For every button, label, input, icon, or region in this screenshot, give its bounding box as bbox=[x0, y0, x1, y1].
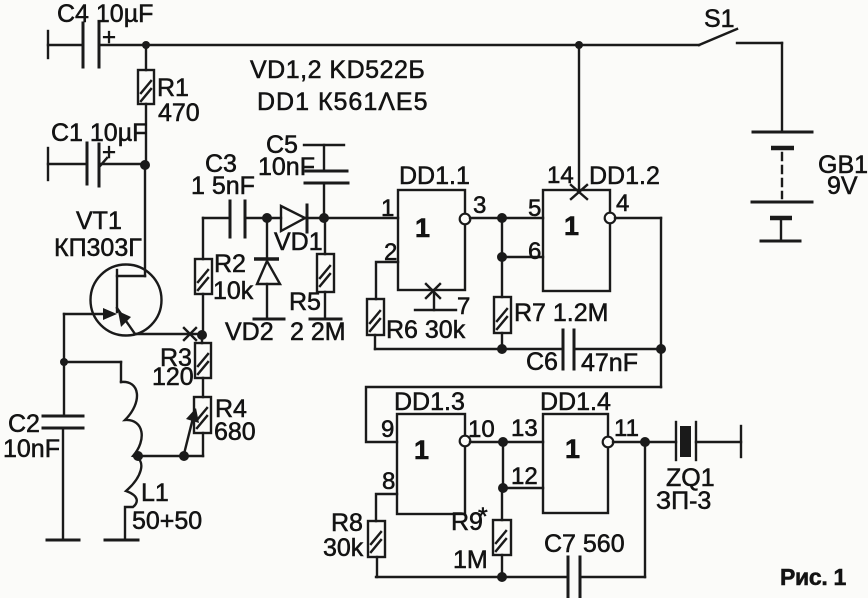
svg-text:L1: L1 bbox=[141, 479, 169, 507]
svg-text:1: 1 bbox=[414, 435, 429, 465]
resistor R5 bbox=[289, 218, 346, 346]
gate DD1.4 bbox=[540, 388, 611, 513]
svg-text:DD1.1: DD1.1 bbox=[399, 162, 470, 190]
wire feedback right bbox=[656, 218, 666, 387]
capacitor C4 bbox=[48, 0, 153, 67]
svg-text:9V: 9V bbox=[827, 172, 858, 200]
resistor R2 bbox=[195, 218, 254, 335]
svg-text:1: 1 bbox=[565, 434, 580, 464]
svg-text:1 5nF: 1 5nF bbox=[191, 172, 255, 200]
svg-text:10nF: 10nF bbox=[258, 153, 315, 181]
svg-text:13: 13 bbox=[511, 415, 538, 442]
pin 2 wire bbox=[376, 239, 398, 299]
resistor R4 (adjustable) bbox=[184, 395, 256, 456]
svg-text:47nF: 47nF bbox=[581, 349, 638, 377]
wire VT1 source to R3 node bbox=[135, 328, 207, 340]
svg-text:C7 560: C7 560 bbox=[544, 530, 625, 558]
svg-text:VD2: VD2 bbox=[225, 318, 274, 346]
svg-text:11: 11 bbox=[614, 415, 639, 442]
svg-text:R1: R1 bbox=[157, 74, 189, 102]
svg-text:120: 120 bbox=[152, 363, 194, 391]
svg-text:7: 7 bbox=[457, 293, 470, 320]
svg-text:VT1: VT1 bbox=[76, 207, 122, 235]
pin 10 output bbox=[460, 415, 543, 447]
pin 6 wire bbox=[497, 195, 543, 297]
svg-text:ЗП-3: ЗП-3 bbox=[656, 487, 711, 515]
svg-text:3: 3 bbox=[473, 192, 486, 219]
svg-text:14: 14 bbox=[547, 162, 574, 189]
svg-text:C2: C2 bbox=[8, 410, 40, 438]
svg-text:DD1 К561ΛЕ5: DD1 К561ΛЕ5 bbox=[257, 88, 429, 116]
battery GB1 bbox=[752, 132, 868, 241]
svg-text:КП303Г: КП303Г bbox=[54, 234, 142, 262]
resistor R7 bbox=[494, 297, 608, 349]
svg-text:6: 6 bbox=[528, 238, 541, 265]
svg-text:1: 1 bbox=[564, 211, 579, 241]
diode VD2 bbox=[225, 218, 284, 346]
capacitor C3 bbox=[191, 150, 281, 237]
gate DD1.2 bbox=[543, 162, 660, 291]
svg-text:DD1.3: DD1.3 bbox=[394, 388, 465, 416]
wire top supply rail bbox=[142, 41, 699, 49]
svg-text:C1 10µF: C1 10µF bbox=[51, 119, 147, 147]
svg-text:12: 12 bbox=[511, 463, 538, 490]
wire battery feed bbox=[781, 43, 783, 132]
svg-text:R5: R5 bbox=[289, 288, 321, 316]
svg-text:DD1.2: DD1.2 bbox=[589, 162, 660, 190]
svg-text:8: 8 bbox=[382, 468, 395, 495]
svg-text:R6 30k: R6 30k bbox=[386, 316, 466, 344]
switch S1 bbox=[699, 5, 782, 45]
resistor R8 bbox=[323, 509, 385, 577]
resistor R3 bbox=[152, 335, 211, 397]
svg-text:2: 2 bbox=[384, 239, 397, 266]
svg-text:C6: C6 bbox=[526, 348, 558, 376]
wire bottom rail bbox=[376, 576, 568, 578]
gate DD1.1 bbox=[398, 162, 470, 290]
svg-text:+: + bbox=[102, 24, 116, 51]
inductor L1 bbox=[105, 362, 203, 540]
capacitor C6 bbox=[497, 330, 661, 377]
resistor R1 bbox=[138, 45, 200, 165]
svg-text:R2: R2 bbox=[214, 250, 246, 278]
svg-text:1: 1 bbox=[381, 195, 394, 222]
capacitor C2 bbox=[3, 362, 83, 540]
svg-text:C4 10µF: C4 10µF bbox=[57, 0, 153, 28]
wire output down bbox=[644, 442, 646, 577]
svg-text:5: 5 bbox=[528, 195, 541, 222]
svg-text:S1: S1 bbox=[704, 5, 735, 33]
pin 4 output bbox=[605, 190, 661, 223]
gate DD1.3 bbox=[381, 388, 465, 514]
svg-text:10nF: 10nF bbox=[3, 435, 60, 463]
svg-text:2 2M: 2 2M bbox=[290, 318, 346, 346]
svg-text:DD1.4: DD1.4 bbox=[540, 388, 611, 416]
svg-text:VD1: VD1 bbox=[274, 228, 323, 256]
svg-text:1: 1 bbox=[415, 213, 430, 243]
svg-text:Рис. 1: Рис. 1 bbox=[780, 564, 847, 590]
wire R1 to VT1 drain bbox=[144, 165, 146, 276]
pin 12 wire bbox=[498, 442, 543, 493]
wire feedback to pin 9 bbox=[366, 387, 661, 442]
piezo ZQ1 bbox=[656, 422, 741, 515]
pin 3 output bbox=[460, 192, 543, 224]
svg-text:9: 9 bbox=[381, 416, 394, 443]
wire timing rail bbox=[375, 348, 563, 350]
pin 7 ground stub bbox=[415, 284, 470, 320]
capacitor C1 bbox=[48, 119, 150, 186]
svg-text:R8: R8 bbox=[331, 509, 363, 537]
svg-text:50+50: 50+50 bbox=[132, 507, 202, 535]
pin 11 output bbox=[603, 415, 676, 447]
svg-text:R7 1.2M: R7 1.2M bbox=[514, 299, 608, 327]
pin 14 power bbox=[547, 45, 587, 199]
svg-text:30k: 30k bbox=[323, 534, 364, 562]
svg-text:10k: 10k bbox=[213, 277, 254, 305]
svg-text:*: * bbox=[478, 503, 488, 531]
transistor VT1 bbox=[54, 207, 162, 336]
wire gate down bbox=[60, 314, 121, 366]
svg-text:470: 470 bbox=[158, 99, 200, 127]
capacitor C7 bbox=[544, 530, 645, 597]
svg-text:10: 10 bbox=[468, 416, 495, 443]
svg-text:680: 680 bbox=[214, 418, 256, 446]
svg-text:4: 4 bbox=[616, 190, 629, 217]
resistor R9 bbox=[451, 488, 511, 582]
svg-text:VD1,2 KD522Б: VD1,2 KD522Б bbox=[250, 56, 425, 84]
diode VD1 bbox=[262, 205, 398, 256]
capacitor C5 bbox=[258, 131, 348, 218]
pin 8 wire bbox=[376, 468, 397, 521]
resistor R6 bbox=[367, 299, 466, 349]
svg-text:1M: 1M bbox=[453, 546, 488, 574]
